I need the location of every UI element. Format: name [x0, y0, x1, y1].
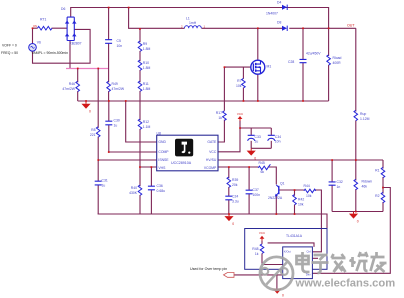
ground 0 middle [224, 214, 234, 226]
svg-text:R46: R46 [69, 82, 75, 86]
resistor Rdown [354, 179, 358, 189]
resistor R39 [227, 177, 231, 187]
svg-text:47m/2W: 47m/2W [62, 87, 75, 91]
resistor RT1 [38, 26, 53, 30]
resistor R17 [223, 111, 227, 121]
wire pink shunt bar [66, 68, 109, 70]
wire R42 column [294, 190, 296, 214]
wire TL431 internals [234, 241, 318, 289]
wire right ground bar [332, 211, 383, 213]
svg-text:0.68u: 0.68u [157, 189, 166, 193]
svg-text:R48: R48 [252, 247, 258, 251]
svg-text:C36: C36 [157, 184, 163, 188]
wire VCC column and cap branch [218, 121, 271, 152]
svg-text:R44: R44 [304, 184, 310, 188]
resistor R42 [293, 195, 297, 205]
svg-text:V6: V6 [37, 41, 41, 45]
wire R46 column [77, 69, 79, 102]
svg-text:1u: 1u [102, 183, 106, 187]
wire R39/C24 column [228, 167, 230, 214]
bridge rectifier D6 [63, 17, 79, 40]
svg-text:1u: 1u [255, 140, 259, 144]
svg-text:OUT: OUT [347, 24, 355, 28]
wire AC source loop [33, 28, 91, 63]
svg-text:R12: R12 [143, 120, 149, 124]
svg-text:U8: U8 [157, 131, 161, 135]
resistor R44 [304, 189, 316, 193]
svg-text:1mH: 1mH [189, 21, 197, 25]
wire VCOMP line [218, 167, 276, 184]
svg-text:VCC: VCC [259, 231, 266, 235]
resistor R7 [242, 78, 246, 88]
capacitor C5 [105, 40, 112, 44]
svg-text:R10: R10 [143, 61, 149, 65]
wire Q1 base line with R44 [279, 190, 322, 252]
capacitor C37 [246, 190, 253, 194]
resistor Rload [327, 55, 331, 65]
capacitor C36 [148, 186, 155, 190]
wire main 0V bus [78, 100, 329, 102]
svg-text:M1: M1 [267, 65, 272, 69]
svg-text:C37: C37 [253, 188, 259, 192]
wire GND pin column [126, 101, 157, 142]
svg-text:6k: 6k [261, 170, 265, 174]
watermark logo circle [260, 257, 293, 290]
svg-text:47m/2W: 47m/2W [112, 87, 125, 91]
svg-text:VHS: VHS [158, 166, 166, 170]
wire VS bus y160 [218, 159, 383, 161]
svg-text:C31: C31 [102, 179, 108, 183]
capacitor C33 [248, 135, 255, 141]
svg-text:R49: R49 [112, 82, 118, 86]
svg-text:0: 0 [89, 110, 91, 114]
svg-text:VOFF = 0: VOFF = 0 [2, 44, 17, 48]
wire C5/R49 column [108, 8, 110, 102]
svg-text:221: 221 [90, 133, 96, 137]
wire OUT column [355, 28, 357, 211]
svg-text:10k: 10k [298, 202, 304, 206]
svg-text:Ctrl: Ctrl [306, 250, 310, 254]
wire bridge bottom riser [69, 41, 71, 69]
TL431 inner subckt box [283, 247, 313, 279]
ground 0 left [81, 101, 91, 114]
wire feedback jog to TL431 [312, 188, 390, 274]
svg-text:1n: 1n [337, 185, 341, 189]
wire R1/R2 column [382, 160, 384, 212]
inductor L1 [185, 26, 202, 29]
svg-text:0: 0 [282, 294, 284, 298]
wire gate line [224, 66, 251, 68]
wire R7 column [242, 67, 244, 101]
svg-text:R42: R42 [298, 198, 304, 202]
wire C37 column [248, 167, 250, 214]
ground 0 vcc caps [247, 148, 257, 160]
resistor R11 [138, 81, 142, 91]
svg-text:0: 0 [232, 222, 234, 226]
capacitor C31 [95, 181, 102, 185]
watermark characters [297, 252, 387, 273]
diode D8 [282, 26, 287, 31]
svg-text:R1: R1 [375, 169, 379, 173]
svg-text:VCOMP: VCOMP [204, 166, 217, 170]
transistor Q1 2N2222A [275, 185, 279, 197]
svg-text:FREQ = 50: FREQ = 50 [1, 51, 18, 55]
svg-text:1.12M: 1.12M [360, 117, 370, 121]
svg-text:Rup: Rup [360, 112, 366, 116]
resistor R10 [138, 60, 142, 70]
svg-text:ON: ON [33, 24, 37, 28]
wire ground bar [98, 214, 327, 229]
svg-text:10k: 10k [236, 84, 242, 88]
svg-text:C24: C24 [232, 195, 238, 199]
svg-text:0: 0 [254, 156, 256, 160]
svg-text:C5: C5 [117, 39, 121, 43]
VCC symbol TL431 [259, 231, 266, 240]
svg-text:D6: D6 [61, 7, 65, 11]
svg-text:1u: 1u [114, 123, 118, 127]
svg-text:Rload: Rload [333, 56, 342, 60]
resistor R48 [260, 244, 264, 254]
resistor R45 [258, 164, 270, 169]
resistor Rup [354, 110, 358, 120]
svg-text:R11: R11 [143, 82, 149, 86]
svg-text:430K: 430K [129, 191, 138, 195]
svg-text:ISNSE: ISNSE [158, 158, 169, 162]
svg-text:Rdown: Rdown [362, 180, 373, 184]
wire R8/ISNS/C31 column [98, 69, 157, 215]
svg-text:1N4007: 1N4007 [266, 12, 278, 16]
MOSFET M1 [251, 60, 265, 74]
capacitor C34 [268, 135, 275, 141]
capacitor C30 [105, 121, 112, 125]
svg-text:C30: C30 [114, 119, 120, 123]
svg-text:C34: C34 [275, 135, 281, 139]
svg-text:2N2222A: 2N2222A [268, 196, 283, 200]
svg-text:20k: 20k [232, 183, 238, 187]
svg-text:1k: 1k [218, 116, 222, 120]
wire C30/COMP column [109, 101, 157, 152]
svg-text:R2: R2 [375, 194, 379, 198]
svg-text:10k: 10k [306, 194, 312, 198]
svg-text:R45: R45 [259, 161, 265, 165]
svg-text:1.8M: 1.8M [143, 47, 151, 51]
svg-text:RT1: RT1 [40, 18, 46, 22]
svg-text:100n: 100n [253, 193, 261, 197]
wire top DC+ line [71, 8, 329, 29]
resistor R40 [138, 185, 142, 195]
svg-text:R9: R9 [143, 42, 147, 46]
wire output cap column [302, 28, 304, 101]
capacitor C32 [329, 182, 336, 185]
svg-text:46k: 46k [362, 185, 368, 189]
svg-text:3.3u: 3.3u [232, 199, 239, 203]
svg-text:R7: R7 [237, 79, 241, 83]
svg-text:R40: R40 [131, 186, 137, 190]
wire switch-node line with L1/D8 [129, 8, 185, 29]
svg-text:www.elecfans.com: www.elecfans.com [295, 278, 396, 290]
svg-text:0: 0 [357, 220, 359, 224]
capacitor C24 [225, 196, 232, 200]
svg-text:GND: GND [158, 140, 166, 144]
wire R17 gate column [218, 67, 224, 142]
svg-text:KB2807: KB2807 [70, 42, 82, 46]
resistor R1 [381, 167, 385, 177]
resistor R8 [96, 127, 100, 137]
svg-text:COMP: COMP [158, 150, 169, 154]
svg-text:VAMPL = 90min-500min: VAMPL = 90min-500min [32, 51, 69, 55]
svg-text:D8: D8 [277, 21, 281, 25]
wire MOSFET drain/source [257, 28, 259, 101]
svg-text:VCC: VCC [209, 150, 217, 154]
wire Rload column [328, 28, 330, 101]
IC U8 UCC28910A [157, 131, 219, 170]
ground 0 TL431 [273, 289, 284, 298]
wire Q1 emitter [275, 196, 277, 214]
svg-text:D4: D4 [277, 1, 281, 5]
svg-text:400R: 400R [333, 61, 342, 65]
resistor R49 [107, 81, 111, 91]
wire R9-R12-R40 column [140, 29, 157, 214]
svg-text:R8: R8 [91, 128, 95, 132]
VCC symbol top [237, 112, 244, 121]
resistor R12 [138, 119, 142, 129]
ground 0 right [349, 212, 359, 224]
wire C32 column [331, 160, 333, 212]
svg-text:VCC: VCC [237, 112, 244, 116]
svg-text:HV/SU: HV/SU [206, 158, 217, 162]
svg-text:10n: 10n [117, 44, 123, 48]
resistor R2 [381, 192, 385, 202]
svg-text:Used for Over temp pin: Used for Over temp pin [190, 267, 227, 271]
svg-text:Q1: Q1 [280, 182, 285, 186]
svg-text:1k: 1k [255, 252, 259, 256]
svg-text:42u/450V: 42u/450V [306, 52, 321, 56]
svg-text:TL431A1A: TL431A1A [286, 234, 303, 238]
svg-text:C32: C32 [337, 180, 343, 184]
svg-text:K/Out: K/Out [284, 250, 291, 254]
AC source V6 [29, 44, 37, 52]
resistor R9 [138, 41, 142, 51]
svg-text:L1: L1 [186, 17, 190, 21]
svg-text:1.1M: 1.1M [143, 125, 151, 129]
svg-text:C33: C33 [255, 135, 261, 139]
capacitor C28 output [300, 59, 307, 62]
svg-text:R17: R17 [216, 111, 222, 115]
svg-text:UCC28910A: UCC28910A [171, 161, 192, 165]
diode D4 [282, 5, 287, 10]
wire C36 column [150, 167, 152, 214]
svg-text:1.8M: 1.8M [143, 87, 151, 91]
svg-text:R39: R39 [232, 178, 238, 182]
svg-text:GATE: GATE [207, 140, 217, 144]
TL431 outer box [245, 229, 327, 270]
svg-text:1.8M: 1.8M [143, 66, 151, 70]
svg-text:C28: C28 [288, 60, 294, 64]
svg-text:10n: 10n [275, 140, 281, 144]
resistor R46 [76, 81, 80, 91]
